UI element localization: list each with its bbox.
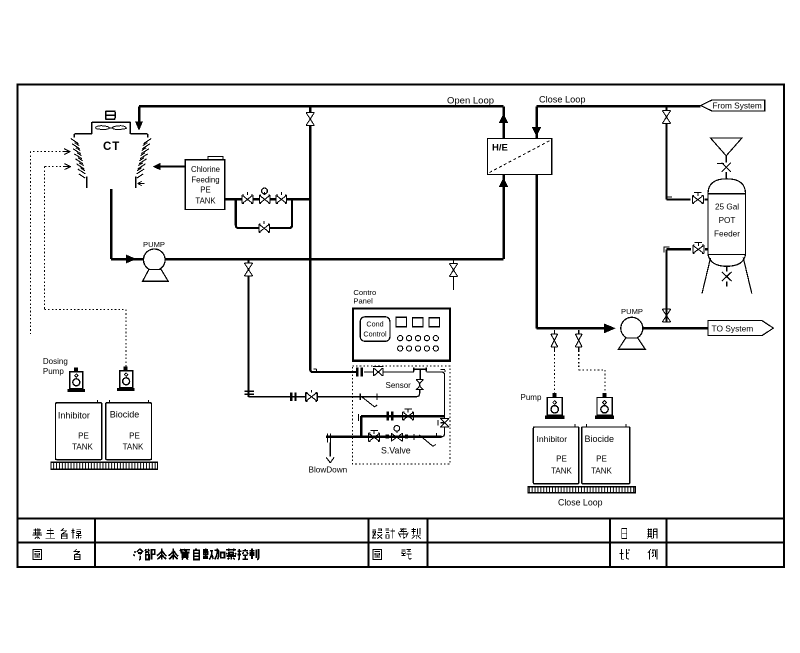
svg-text:TO System: TO System	[712, 323, 754, 333]
svg-text:Feeding: Feeding	[191, 176, 219, 185]
svg-text:S.Valve: S.Valve	[381, 446, 411, 456]
svg-text:Pump: Pump	[521, 393, 542, 402]
svg-text:CT: CT	[103, 141, 120, 153]
svg-text:Control: Control	[363, 330, 387, 339]
svg-text:Chlorine: Chlorine	[191, 165, 220, 174]
svg-text:BlowDown: BlowDown	[309, 466, 348, 475]
svg-text:Inhibitor: Inhibitor	[537, 434, 568, 444]
svg-text:H/E: H/E	[492, 143, 508, 154]
svg-text:Panel: Panel	[353, 297, 373, 306]
svg-text:Close Loop: Close Loop	[539, 95, 585, 105]
svg-text:POT: POT	[719, 216, 736, 225]
svg-text:Pump: Pump	[43, 367, 64, 376]
svg-text:TANK: TANK	[551, 467, 572, 476]
svg-text:Dosing: Dosing	[43, 357, 68, 366]
svg-text:PUMP: PUMP	[621, 307, 643, 316]
svg-text:Cond: Cond	[366, 320, 383, 329]
svg-text:PE: PE	[596, 455, 607, 464]
svg-text:Feeder: Feeder	[714, 230, 740, 239]
svg-text:PE: PE	[200, 186, 210, 195]
svg-text:25 Gal: 25 Gal	[715, 203, 739, 212]
svg-text:TANK: TANK	[72, 443, 93, 452]
svg-text:PE: PE	[129, 432, 140, 441]
svg-text:TANK: TANK	[123, 443, 144, 452]
svg-text:Inhibitor: Inhibitor	[58, 411, 90, 421]
svg-text:PE: PE	[556, 455, 567, 464]
svg-text:PUMP: PUMP	[143, 240, 165, 249]
svg-text:PE: PE	[78, 432, 89, 441]
svg-text:Biocide: Biocide	[585, 434, 615, 444]
svg-text:Biocide: Biocide	[110, 410, 140, 420]
svg-text:Open Loop: Open Loop	[447, 96, 494, 107]
svg-text:Close Loop: Close Loop	[558, 498, 603, 508]
svg-text:TANK: TANK	[195, 197, 216, 206]
svg-text:From System: From System	[713, 101, 762, 111]
svg-text:TANK: TANK	[591, 467, 612, 476]
svg-text:Sensor: Sensor	[386, 381, 412, 390]
